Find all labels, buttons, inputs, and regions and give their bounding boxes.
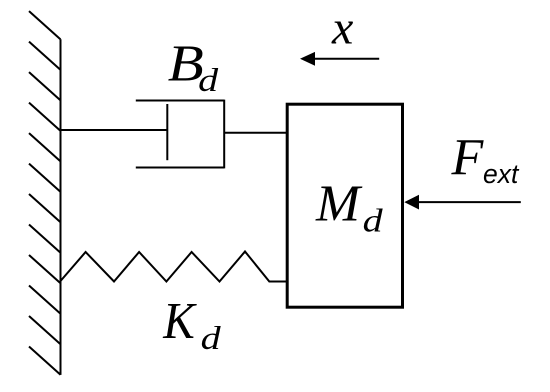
x arrow shaft [312, 58, 379, 60]
wall vertical line [60, 39, 62, 375]
wall hatch 6 [29, 164, 61, 192]
wall hatch 1 [29, 11, 61, 39]
F_ext arrow shaft [416, 201, 521, 203]
wall hatch 10 [29, 286, 61, 314]
svg-text:d: d [363, 204, 384, 240]
F_ext arrow head [404, 195, 419, 210]
wall hatch 8 [29, 225, 61, 253]
wall hatch 9 [29, 255, 61, 283]
svg-text:ext: ext [483, 159, 520, 189]
wall hatch 4 [29, 103, 61, 131]
x arrow head [300, 52, 315, 66]
wall hatch 2 [29, 42, 61, 70]
damper cylinder right wall [223, 100, 225, 169]
mass block M_d rectangle [287, 104, 402, 307]
wall hatch 11 [29, 316, 61, 344]
wall hatch 7 [29, 194, 61, 222]
damper left rod (wall to piston) [61, 129, 168, 131]
damper cylinder top wall [136, 100, 224, 102]
wall hatch 3 [29, 72, 61, 100]
svg-text:F: F [451, 130, 485, 187]
svg-text:d: d [201, 321, 222, 357]
damper piston plate [166, 104, 168, 160]
spring K_d zigzag [61, 252, 288, 282]
damper cylinder bottom wall [136, 167, 224, 169]
wall hatch 12 [29, 347, 61, 375]
svg-text:d: d [198, 63, 219, 99]
svg-text:M: M [315, 176, 363, 233]
damper right rod (cylinder to mass) [224, 132, 287, 134]
wall hatch 5 [29, 133, 61, 161]
svg-text:x: x [331, 2, 353, 55]
svg-text:K: K [162, 293, 197, 350]
